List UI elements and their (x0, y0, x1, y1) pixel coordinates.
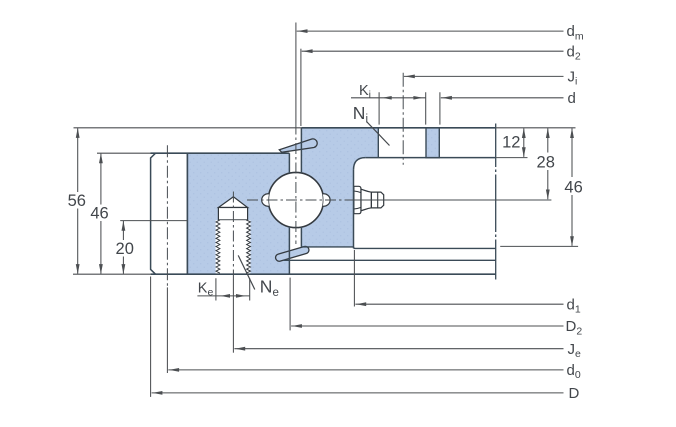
dim line D (152, 392, 564, 394)
ring outline: inner ring bottom (301, 247, 353, 249)
dim line 46 right (571, 128, 573, 246)
arrow d (442, 96, 452, 100)
svg-text:Ne: Ne (260, 277, 279, 300)
svg-text:28: 28 (537, 153, 555, 171)
grease nipple base facets (354, 191, 361, 209)
ring outline: gear rim joint (186, 153, 188, 274)
dimension lines (gray) (78, 31, 572, 393)
dim line 46 left (100, 154, 102, 274)
dim line Ji (404, 75, 564, 77)
ext line bottom left (73, 273, 151, 275)
extension lines (gray) (73, 23, 578, 397)
arrow D (152, 391, 162, 395)
dim line D2 (291, 325, 563, 327)
ext line D (150, 277, 152, 397)
ring outline: inner ring bottom land edge to axis (354, 247, 496, 249)
bolt hole plain bore (218, 208, 247, 220)
svg-text:Ji: Ji (568, 69, 578, 88)
dim line Je (234, 348, 563, 350)
centerline: flange hole Ni (402, 73, 404, 165)
arrows Ke outward pair (221, 294, 246, 298)
arrows 46 right (570, 128, 574, 246)
ext line inner ring bottom right (500, 245, 578, 247)
arrow dm (298, 29, 308, 33)
ext line d1 (353, 250, 355, 307)
svg-text:20: 20 (116, 240, 134, 258)
svg-text:d: d (568, 90, 576, 107)
ring outline: outer ring right face (288, 153, 290, 274)
thread zigzag right (246, 220, 250, 273)
svg-text:d2: d2 (567, 43, 581, 62)
svg-text:46: 46 (564, 179, 582, 197)
arrow Ji (405, 75, 415, 79)
dim line 28 (547, 128, 549, 199)
dim line d1 (355, 303, 563, 305)
gear block (external gear teeth section) (151, 153, 188, 274)
bolt hole cone tip (218, 197, 247, 208)
ring outline: inner ring left face (300, 128, 302, 247)
ring outline: seal lower visible edge (283, 259, 496, 261)
arrows 28 (546, 128, 550, 200)
svg-text:d1: d1 (567, 296, 581, 315)
svg-text:Je: Je (568, 341, 582, 360)
arrows 20 (122, 221, 126, 274)
ring outline: outer ring top surface (151, 152, 290, 154)
svg-text:dm: dm (567, 23, 584, 42)
svg-text:Ki: Ki (359, 83, 371, 101)
ring outline: inner ring top surface (301, 127, 495, 129)
ext line top surface row (74, 127, 576, 129)
leader line Ne (238, 255, 255, 289)
grease nipple tip groove (377, 192, 379, 208)
inner ring section (blue) (301, 128, 378, 247)
arrow D2 (292, 324, 302, 328)
dim line dm (297, 30, 564, 32)
dim line 20 (122, 221, 124, 274)
ext line dm (ball centre) (295, 23, 297, 124)
arrow d1 (356, 302, 366, 306)
centerline: ball/nipple horizontal (247, 199, 348, 201)
ring outline: inner ring right face (353, 170, 355, 249)
arrows 56 (76, 128, 80, 274)
ext line flange underside right (496, 157, 528, 159)
dim line Ke (197, 295, 250, 297)
arrow d0 (169, 368, 179, 372)
arrows 46 left (99, 153, 103, 274)
outer ring section (blue) (187, 153, 289, 274)
ext line d2 (300, 49, 302, 126)
svg-text:Ni: Ni (353, 103, 368, 126)
ring outline: outer ring bottom surface (151, 273, 496, 275)
ext line Je (bolt centre) (232, 279, 234, 353)
arrows Ki outward pair (382, 96, 423, 100)
ring outline: flange underside (365, 157, 496, 159)
dim line d and Ki (351, 97, 564, 99)
svg-text:D2: D2 (566, 318, 583, 337)
leader line Ni (367, 122, 390, 146)
centerline: nipple horizontal solid (348, 199, 551, 201)
dim line 12 (523, 128, 525, 157)
svg-text:46: 46 (90, 204, 108, 222)
arrow Je (235, 347, 245, 351)
dim line d0 (168, 369, 563, 371)
arrows 12 (522, 128, 526, 157)
svg-text:d0: d0 (567, 362, 581, 381)
bolt hole threaded section white (216, 220, 251, 273)
ext ticks Ki and d (379, 92, 440, 124)
arrowheads (gray filled) (76, 29, 574, 395)
centerline: ball vertical (295, 124, 297, 245)
axis line (bore edge) (495, 124, 497, 280)
ext line thread depth (120, 220, 187, 222)
centerline: bolt hole (232, 192, 234, 280)
svg-text:Ke: Ke (198, 281, 214, 299)
svg-text:56: 56 (68, 192, 86, 210)
dim line d2 (302, 50, 564, 52)
svg-text:D: D (569, 385, 580, 402)
inner ring flange segment between holes (426, 128, 439, 158)
dim line 56 (77, 128, 79, 273)
ext line outer ring top left (97, 152, 151, 154)
groove cusp pocket left (262, 194, 269, 206)
ring outline: flange fillet (354, 158, 366, 170)
grease nipple base (354, 186, 361, 213)
grease nipple tip (371, 192, 383, 208)
seal flap top (279, 139, 317, 152)
arrow d2 (303, 49, 313, 53)
white backings for numbers on dimension lines (66, 153, 584, 257)
svg-text:12: 12 (502, 134, 520, 152)
ext line D2 (289, 278, 291, 331)
ring outline: flange hole edge left (377, 128, 379, 158)
ball (rolling element) (268, 172, 323, 227)
centerline: gear pitch line (166, 145, 168, 287)
ext ticks Ke (216, 278, 250, 300)
seal flap bottom (276, 246, 309, 261)
thread zigzag left (216, 220, 220, 273)
ext line d0 (pitch) (166, 287, 168, 373)
grease nipple taper (361, 189, 371, 211)
groove cusp pocket right (323, 194, 330, 206)
